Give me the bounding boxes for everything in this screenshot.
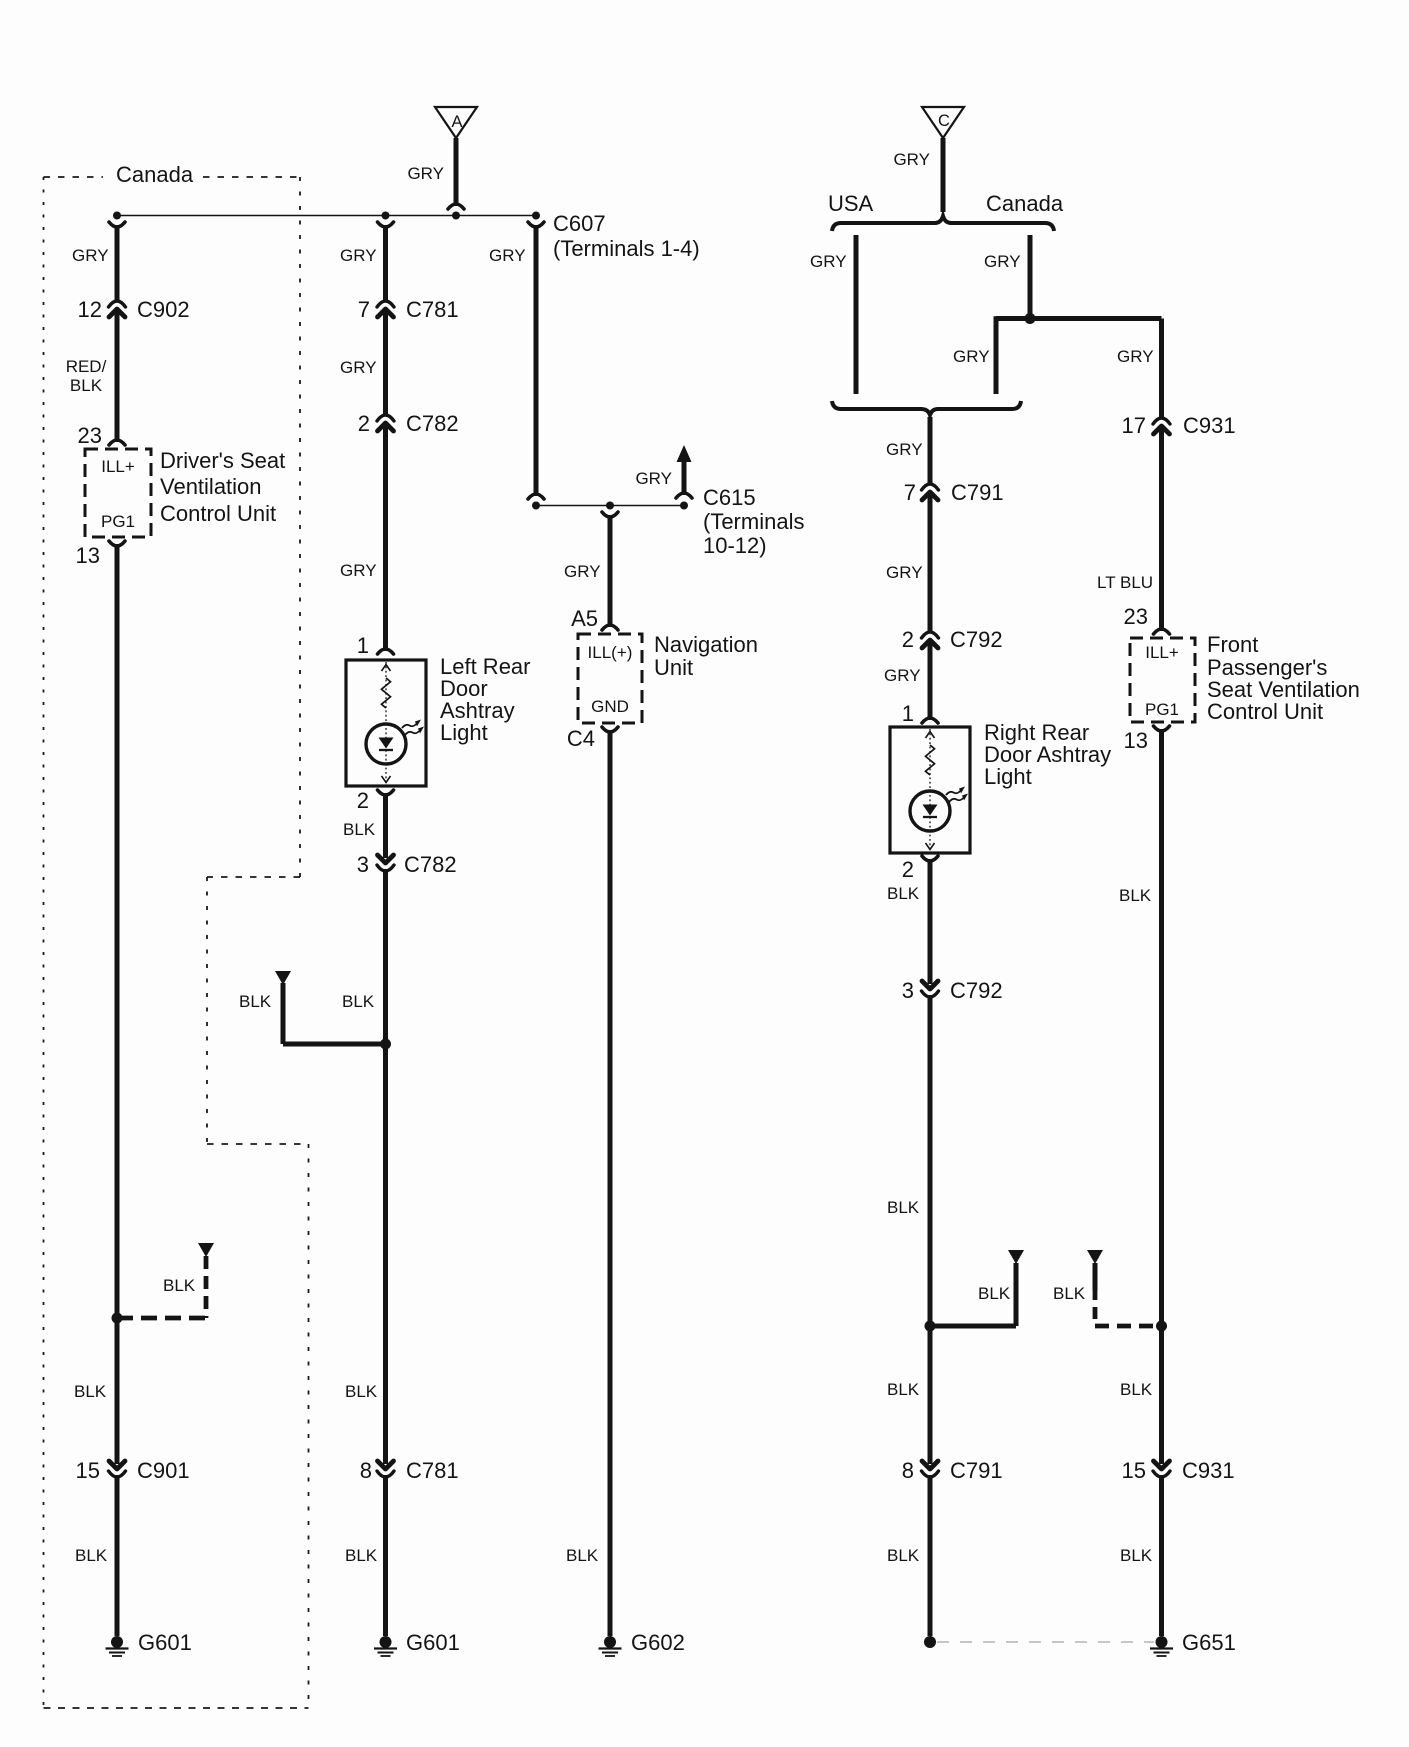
svg-text:Front: Front: [1207, 632, 1258, 657]
svg-text:Control Unit: Control Unit: [160, 501, 276, 526]
svg-text:3: 3: [357, 852, 369, 877]
svg-text:C791: C791: [951, 480, 1004, 505]
svg-text:G601: G601: [406, 1630, 460, 1655]
svg-text:15: 15: [76, 1458, 100, 1483]
svg-text:GRY: GRY: [953, 347, 990, 366]
svg-text:ILL+: ILL+: [101, 457, 135, 476]
svg-text:GRY: GRY: [984, 252, 1021, 271]
svg-text:GRY: GRY: [564, 562, 601, 581]
svg-text:1: 1: [357, 633, 369, 658]
svg-text:BLK: BLK: [1119, 886, 1152, 905]
svg-text:15: 15: [1122, 1458, 1146, 1483]
svg-text:BLK: BLK: [342, 992, 375, 1011]
svg-text:C781: C781: [406, 297, 459, 322]
svg-text:GRY: GRY: [886, 563, 923, 582]
svg-text:G601: G601: [138, 1630, 192, 1655]
svg-text:2: 2: [358, 411, 370, 436]
svg-text:2: 2: [902, 627, 914, 652]
svg-text:Navigation: Navigation: [654, 632, 758, 657]
svg-text:Control Unit: Control Unit: [1207, 699, 1323, 724]
svg-text:(Terminals 1-4): (Terminals 1-4): [553, 236, 700, 261]
svg-text:PG1: PG1: [1145, 700, 1179, 719]
svg-text:GRY: GRY: [489, 246, 526, 265]
svg-text:RED/: RED/: [66, 357, 107, 376]
svg-text:BLK: BLK: [70, 376, 103, 395]
svg-text:2: 2: [357, 788, 369, 813]
svg-text:BLK: BLK: [1053, 1284, 1086, 1303]
svg-text:13: 13: [1124, 728, 1148, 753]
svg-text:GRY: GRY: [810, 252, 847, 271]
svg-text:C901: C901: [137, 1458, 190, 1483]
svg-text:(Terminals: (Terminals: [703, 509, 804, 534]
svg-text:GND: GND: [591, 697, 629, 716]
svg-text:BLK: BLK: [978, 1284, 1011, 1303]
svg-text:GRY: GRY: [886, 440, 923, 459]
svg-text:BLK: BLK: [74, 1382, 107, 1401]
svg-text:GRY: GRY: [340, 246, 377, 265]
svg-text:7: 7: [358, 297, 370, 322]
svg-text:10-12): 10-12): [703, 533, 767, 558]
svg-text:Unit: Unit: [654, 655, 693, 680]
svg-text:BLK: BLK: [345, 1546, 378, 1565]
svg-text:PG1: PG1: [101, 512, 135, 531]
svg-text:C607: C607: [553, 211, 606, 236]
svg-text:G651: G651: [1182, 1630, 1236, 1655]
svg-text:LT BLU: LT BLU: [1097, 573, 1153, 592]
svg-text:A5: A5: [571, 606, 598, 631]
svg-text:ILL(+): ILL(+): [588, 643, 633, 662]
svg-text:8: 8: [360, 1458, 372, 1483]
svg-text:BLK: BLK: [163, 1276, 196, 1295]
svg-text:USA: USA: [828, 191, 874, 216]
svg-text:BLK: BLK: [345, 1382, 378, 1401]
svg-text:BLK: BLK: [887, 1546, 920, 1565]
svg-text:BLK: BLK: [566, 1546, 599, 1565]
svg-text:ILL+: ILL+: [1145, 643, 1179, 662]
svg-text:GRY: GRY: [72, 246, 109, 265]
svg-text:BLK: BLK: [343, 820, 376, 839]
svg-text:Light: Light: [984, 764, 1032, 789]
svg-text:C4: C4: [567, 726, 595, 751]
svg-text:C931: C931: [1183, 413, 1236, 438]
svg-text:Canada: Canada: [116, 162, 194, 187]
svg-text:Driver's Seat: Driver's Seat: [160, 448, 285, 473]
svg-text:13: 13: [76, 543, 100, 568]
svg-text:C931: C931: [1182, 1458, 1235, 1483]
svg-text:GRY: GRY: [893, 150, 930, 169]
svg-text:BLK: BLK: [75, 1546, 108, 1565]
svg-text:BLK: BLK: [887, 1380, 920, 1399]
svg-text:2: 2: [902, 857, 914, 882]
svg-text:GRY: GRY: [1117, 347, 1154, 366]
svg-text:23: 23: [78, 423, 102, 448]
svg-text:BLK: BLK: [1120, 1546, 1153, 1565]
svg-text:GRY: GRY: [407, 164, 444, 183]
svg-text:3: 3: [902, 978, 914, 1003]
svg-text:BLK: BLK: [239, 992, 272, 1011]
svg-text:BLK: BLK: [887, 884, 920, 903]
svg-text:7: 7: [904, 480, 916, 505]
svg-text:C782: C782: [404, 852, 457, 877]
svg-text:C792: C792: [950, 978, 1003, 1003]
svg-text:12: 12: [78, 297, 102, 322]
svg-text:C615: C615: [703, 485, 756, 510]
svg-text:C902: C902: [137, 297, 190, 322]
svg-text:BLK: BLK: [1120, 1380, 1153, 1399]
svg-text:C: C: [938, 112, 950, 130]
svg-text:Light: Light: [440, 720, 488, 745]
svg-text:C782: C782: [406, 411, 459, 436]
svg-text:23: 23: [1124, 604, 1148, 629]
svg-text:Canada: Canada: [986, 191, 1064, 216]
svg-text:GRY: GRY: [884, 666, 921, 685]
svg-text:GRY: GRY: [635, 469, 672, 488]
svg-text:C781: C781: [406, 1458, 459, 1483]
svg-text:BLK: BLK: [887, 1198, 920, 1217]
svg-text:C792: C792: [950, 627, 1003, 652]
svg-text:1: 1: [902, 701, 914, 726]
svg-text:17: 17: [1122, 413, 1146, 438]
svg-text:GRY: GRY: [340, 358, 377, 377]
svg-text:8: 8: [902, 1458, 914, 1483]
svg-text:GRY: GRY: [340, 561, 377, 580]
svg-text:C791: C791: [950, 1458, 1003, 1483]
svg-text:G602: G602: [631, 1630, 685, 1655]
svg-text:Ventilation: Ventilation: [160, 474, 262, 499]
svg-text:A: A: [451, 113, 462, 131]
